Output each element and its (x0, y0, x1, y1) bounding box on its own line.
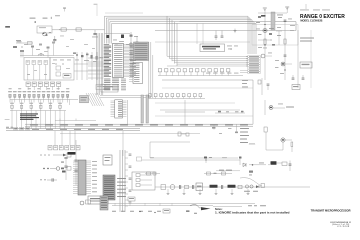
control line (180, 22, 297, 31)
filter box FL3 (300, 62, 312, 68)
transistor Q1 (43, 32, 52, 36)
ground (234, 29, 237, 33)
label row FL1 (227, 46, 238, 50)
label row fl (137, 157, 228, 161)
ferrite bead FB1 (210, 185, 218, 188)
band labels left (6, 127, 13, 128)
resistor network RN3 (148, 94, 205, 99)
capacitor C41 (64, 166, 67, 167)
buffer Q5 (265, 100, 294, 115)
latch U3 (111, 100, 127, 118)
wire (162, 87, 253, 89)
resistor R4 (28, 42, 33, 45)
wire (100, 96, 150, 98)
label (248, 204, 266, 207)
parts above B (31, 42, 55, 58)
net labels D0-D7 (240, 56, 260, 74)
oscillator module X1 (88, 196, 108, 204)
filter FL5 (196, 183, 203, 191)
wire (150, 142, 190, 158)
svg-text:1. IGNORE indicates that the p: 1. IGNORE indicates that the part is not… (215, 211, 290, 214)
capacitor C1 (53, 36, 56, 43)
component row (112, 211, 161, 213)
power flag (63, 8, 66, 12)
capacitor C4 (136, 36, 139, 43)
label row chain (244, 190, 258, 193)
wire (105, 12, 143, 14)
diode ladder D3-D15 (8, 88, 78, 102)
inductor L2 (271, 12, 275, 30)
wire (52, 29, 105, 31)
test point chain (40, 153, 71, 157)
pull-up resistor row RN2 (158, 69, 243, 76)
caption TRANSMIT MICROPROCESSOR (311, 209, 351, 213)
wire (258, 163, 266, 165)
capacitor C22b (284, 19, 292, 22)
decoder box (101, 84, 118, 92)
crystal Y3 (68, 152, 76, 155)
shift register U7 (103, 175, 115, 200)
title RANGE 0 EXCITER (300, 14, 345, 20)
address bus band (6, 129, 140, 131)
U1 lower pins (104, 79, 126, 91)
bus terminator (100, 196, 108, 210)
wire (284, 20, 286, 80)
transistor Q10 (61, 162, 66, 173)
transistor Q12 (281, 62, 292, 66)
capacitor C2 (92, 30, 98, 37)
resistor R31 (291, 142, 293, 152)
diode D21 (256, 185, 259, 188)
wire crossing (88, 58, 104, 78)
upper row parts 2 (204, 172, 232, 175)
capacitor C32 (221, 185, 222, 189)
buffer U6 (103, 155, 112, 165)
ladder to bus wires (12, 111, 65, 129)
transistor Q9 (245, 185, 253, 188)
wire arc (240, 178, 262, 186)
junction node (249, 164, 258, 166)
resistor R40 (161, 185, 166, 190)
data bus riser (167, 16, 177, 66)
regulator VR1 (298, 30, 311, 88)
capacitor C35 (289, 161, 292, 172)
svg-text:TRANSMIT MICROPROCESSOR: TRANSMIT MICROPROCESSOR (311, 209, 351, 213)
parts grid H (256, 16, 282, 48)
relay contacts (26, 61, 48, 81)
ferrite bead FB2 (228, 185, 236, 188)
label stack VR1 (300, 38, 314, 42)
transistor Q3 (43, 167, 71, 171)
microprocessor U1 (104, 44, 136, 78)
bus ticks (125, 152, 128, 206)
filter box FL4 (132, 172, 155, 190)
resistor R2 (76, 28, 81, 31)
capacitor C11 (74, 170, 77, 171)
scatter labels mid (60, 36, 95, 49)
label top (300, 4, 330, 10)
DAC bus vertical (96, 33, 102, 95)
bus junction (162, 80, 253, 124)
wire (258, 12, 287, 14)
note 1 (215, 211, 290, 214)
wire (155, 102, 235, 104)
capacitor C10 (74, 160, 77, 161)
resistor R42 (238, 185, 242, 188)
wire (155, 41, 250, 43)
audio rail (155, 186, 310, 188)
transistor Q13 (261, 53, 272, 59)
ground rail stubs (167, 189, 250, 195)
resistor R45 (282, 162, 287, 166)
capacitor C31 (192, 185, 193, 189)
data bus fan-out (167, 56, 248, 67)
wire (55, 119, 96, 121)
ladder module A1 (80, 96, 89, 103)
connector J3 (163, 209, 170, 213)
note pointer (190, 205, 211, 211)
resistor R47 (239, 157, 242, 166)
transformer T1 (170, 185, 175, 190)
bus driver U4 (141, 95, 148, 123)
resistor R50 (128, 197, 135, 201)
capacitor C50 (105, 34, 131, 39)
note text block (20, 113, 39, 120)
revision zone mark (5, 26, 10, 27)
decoupling caps (129, 154, 132, 203)
address bus vertical (105, 16, 112, 43)
capacitor C20 (261, 15, 266, 17)
wire (112, 205, 213, 207)
module box A2 (96, 85, 105, 90)
parts center right (212, 124, 238, 134)
resistor R41 (185, 185, 189, 188)
labels mid (186, 211, 197, 214)
parts under (249, 171, 253, 176)
DDS IC U5 (73, 160, 91, 195)
ladder drop wires (12, 100, 70, 106)
wire (160, 109, 240, 111)
data bus band (25, 124, 253, 126)
sheet number (332, 223, 349, 226)
label cluster (75, 57, 103, 62)
wire (213, 206, 242, 208)
shield box FL1 (200, 44, 225, 52)
wire (184, 100, 186, 124)
capacitor bank (56, 66, 71, 78)
label row (206, 72, 239, 75)
wire (75, 140, 77, 185)
resistor R32 (284, 39, 286, 44)
connector J2 (292, 85, 300, 90)
capacitor C36 (261, 184, 265, 188)
pin labels U5 (92, 161, 97, 192)
transformer T2 (38, 53, 44, 56)
wire (16, 41, 33, 43)
diode D2 (86, 52, 89, 80)
diode D20 (243, 163, 246, 167)
label stack (240, 128, 249, 143)
wire (155, 115, 253, 117)
capacitor C40 (64, 158, 67, 181)
wire (20, 52, 74, 58)
transistor Q8 (268, 161, 282, 165)
mixer Q6 (264, 127, 292, 150)
ground (263, 8, 267, 10)
capacitor C14 (258, 78, 269, 95)
wire (150, 157, 238, 159)
interior parts B (27, 60, 71, 75)
filter parts (136, 174, 152, 187)
label VCC (242, 80, 248, 87)
date (336, 226, 350, 228)
connector J1 (26, 82, 61, 90)
zone mark (5, 118, 10, 121)
pin labels U7 (117, 178, 126, 197)
resistor row R10-R15 (10, 103, 66, 111)
data bus drop right (248, 16, 256, 54)
wire (74, 63, 104, 65)
wire (197, 23, 203, 44)
capacitor C30 (179, 185, 180, 189)
label TP1 (30, 15, 61, 23)
EPROM U2 (129, 42, 149, 61)
wire (60, 132, 200, 134)
wire crossing diag (86, 93, 104, 106)
parts grid H2 (275, 60, 286, 74)
wire (108, 203, 255, 205)
capacitor C23 (302, 75, 305, 79)
wire (122, 131, 124, 156)
inductor L1 (249, 144, 255, 145)
svg-text:MODEL CLE6002B: MODEL CLE6002B (300, 19, 322, 23)
wire (264, 10, 266, 80)
crystal oscillator Y1 (37, 26, 52, 33)
wire (142, 159, 240, 161)
DAC resistor boxes (48, 131, 80, 150)
capacitor C12 (178, 132, 189, 136)
ground (285, 7, 289, 13)
bus entry labels (14, 127, 30, 130)
transistor Q7 (263, 28, 267, 32)
subtitle MODEL CLE6002B (300, 19, 322, 23)
notes heading (215, 208, 223, 211)
wire (266, 142, 283, 150)
wire loop (252, 25, 298, 46)
diode D1 (81, 52, 84, 80)
stub top (94, 4, 98, 16)
capacitor C9 (40, 178, 57, 181)
filter bank FL2a (24, 58, 50, 81)
svg-text:2/1/2006: 2/1/2006 (336, 226, 350, 228)
vertical bus (120, 150, 125, 212)
wire (258, 31, 282, 45)
resistor R8 (96, 52, 98, 80)
capacitor C22 (292, 75, 295, 79)
address bus corner (105, 16, 257, 23)
wire (149, 42, 153, 98)
wire (74, 70, 104, 72)
parts row center (215, 111, 245, 113)
label Q7 (256, 15, 295, 48)
transistor Q14 (204, 157, 212, 164)
resistor R1 (59, 28, 66, 31)
RAM U2B (129, 63, 143, 84)
crystal Y2 (113, 32, 138, 45)
capacitor C6 (221, 31, 224, 38)
resistor R7 (91, 52, 93, 80)
wire (155, 30, 296, 32)
label cluster W (13, 40, 28, 52)
doc number (330, 221, 352, 224)
transistor Q2 (73, 52, 78, 80)
capacitor C21 (284, 55, 287, 56)
resistor R30 (264, 39, 266, 45)
transistor Q11 (80, 200, 91, 205)
wire (165, 111, 205, 113)
filter bank FL2 (50, 58, 74, 81)
upper row parts (145, 172, 160, 175)
label row top (216, 170, 240, 171)
capacitor C5 (215, 31, 218, 41)
wire (127, 100, 129, 124)
